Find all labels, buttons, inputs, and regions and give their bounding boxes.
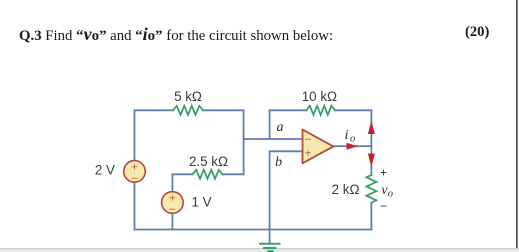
svg-text:o: o <box>388 189 393 200</box>
wire: 2V bottom to rail <box>134 183 136 230</box>
wire: op-amp output <box>333 145 371 147</box>
wire: top rail right of 5k to node-a vertical <box>203 110 244 174</box>
voltage source V1 2 V <box>124 161 146 183</box>
svg-text:b: b <box>275 155 282 170</box>
wire: right vertical top segment <box>370 110 372 175</box>
svg-text:2 kΩ: 2 kΩ <box>332 182 360 197</box>
svg-text:i: i <box>345 128 349 143</box>
resistor R1 5 kOhm zigzag <box>173 106 203 115</box>
svg-text:+: + <box>304 145 311 160</box>
wire: node a horizontal to op-amp minus <box>244 138 303 140</box>
resistor R3 10 kOhm zigzag <box>306 106 335 115</box>
wire: b input <box>270 151 303 229</box>
voltage source V2 1 V <box>162 192 184 214</box>
svg-text:2 V: 2 V <box>95 163 115 178</box>
marks (20) <box>465 24 489 41</box>
svg-text:o: o <box>350 134 355 145</box>
svg-text:v: v <box>382 182 388 197</box>
op-amp U1 <box>303 130 334 164</box>
wire: feedback rail left of 10k <box>270 109 307 111</box>
ground bar 1 <box>260 243 280 245</box>
svg-text:−: − <box>380 199 387 213</box>
wire: bottom rail <box>135 229 372 231</box>
svg-text:10 kΩ: 10 kΩ <box>302 89 337 104</box>
ground bar 2 <box>264 247 276 249</box>
wire: 1V vertical top <box>171 174 173 192</box>
wire: 2.5k row left segment <box>172 173 192 175</box>
wire: ground stem <box>269 230 271 244</box>
wire: right vertical bottom segment <box>370 203 372 230</box>
svg-text:a: a <box>277 120 284 135</box>
current arrow right io <box>347 143 358 150</box>
header question text <box>19 24 333 45</box>
wire: 1V vertical bottom <box>171 214 173 230</box>
wire: feedback rail right of 10k to output vertical <box>335 109 371 111</box>
current arrow up (feedback branch) <box>368 121 375 135</box>
wire: 2.5k row right segment to node a vertical <box>223 173 244 175</box>
page right border <box>516 0 518 252</box>
resistor R2 2.5 kOhm zigzag <box>193 170 223 179</box>
svg-text:+: + <box>380 166 387 180</box>
page bottom edge band <box>0 248 519 252</box>
svg-text:5 kΩ: 5 kΩ <box>174 89 202 104</box>
current arrow down (2k branch) <box>368 154 375 168</box>
svg-text:−: − <box>169 202 176 217</box>
resistor R4 2 kOhm vertical zigzag <box>366 175 376 203</box>
svg-text:−: − <box>131 171 138 186</box>
ground bar 3 <box>268 250 272 252</box>
wire: top-left rail with 5k gap <box>135 110 174 160</box>
svg-text:2.5 kΩ: 2.5 kΩ <box>189 154 228 169</box>
svg-text:1 V: 1 V <box>192 195 212 210</box>
wire: feedback left vertical <box>269 110 271 139</box>
